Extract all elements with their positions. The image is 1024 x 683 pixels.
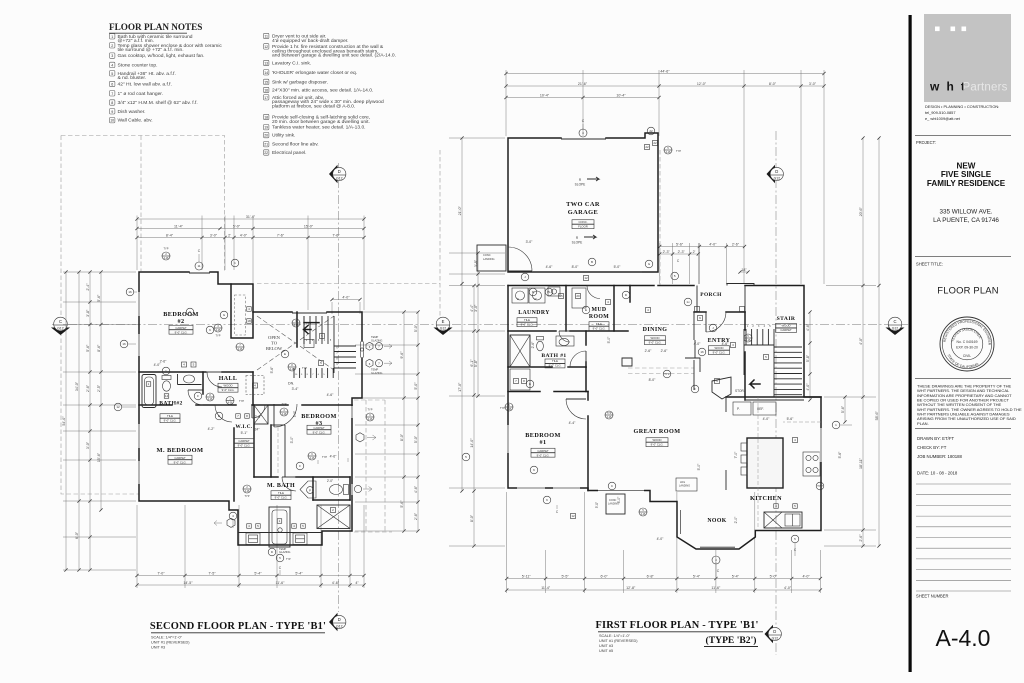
- garage entry door arc: [508, 247, 532, 271]
- svg-text:SLOPE: SLOPE: [572, 241, 583, 245]
- svg-text:SCALE: 1/4"=1'-0": SCALE: 1/4"=1'-0": [599, 634, 631, 638]
- right plan left dim chain 1: [461, 138, 463, 491]
- svg-text:w h t: w h t: [929, 80, 967, 94]
- svg-text:& nd. bluster.: & nd. bluster.: [118, 75, 147, 81]
- svg-text:Partners: Partners: [963, 82, 1008, 94]
- note 17: [264, 95, 384, 110]
- hall/stair wall: [252, 372, 254, 405]
- legal paragraph: [917, 384, 1022, 426]
- svg-text:A-4.0: A-4.0: [936, 625, 991, 651]
- svg-text:1" ø rod coat hanger.: 1" ø rod coat hanger.: [118, 91, 164, 97]
- svg-text:FAMILY RESIDENCE: FAMILY RESIDENCE: [927, 179, 1006, 188]
- svg-text:D: D: [338, 617, 341, 622]
- centerline symbol below right plan: [712, 556, 720, 564]
- garage walls: [508, 133, 658, 272]
- svg-text:4'-0": 4'-0": [154, 363, 162, 367]
- note 18: [264, 114, 371, 125]
- svg-text:4'-0": 4'-0": [240, 233, 248, 237]
- svg-text:24"X30" min. attic access, see: 24"X30" min. attic access, see detail. 1…: [272, 88, 373, 94]
- svg-text:8'-0": 8'-0": [769, 82, 777, 86]
- svg-text:10: 10: [110, 119, 114, 123]
- svg-text:TYP: TYP: [302, 366, 307, 370]
- roof outline dashed right of left plan: [365, 400, 367, 532]
- stair bottom run risers: [293, 368, 295, 378]
- garage door opening ticks bottom: [520, 271, 642, 273]
- stair 5 box: [764, 355, 769, 360]
- note 8: [110, 100, 198, 106]
- entry coat closet jog: [688, 358, 700, 372]
- svg-text:G12: G12: [336, 624, 343, 628]
- left plan far left dim chain (54-0): [65, 272, 67, 570]
- svg-text:TWO CAR: TWO CAR: [566, 201, 600, 208]
- first floor roof dashed above open-below: [257, 283, 440, 285]
- svg-text:5'-4": 5'-4": [732, 574, 740, 578]
- note 21: [264, 142, 319, 148]
- svg-text:9: 9: [111, 110, 113, 114]
- svg-text:BEDROOM: BEDROOM: [301, 413, 336, 420]
- svg-text:3'-0": 3'-0": [290, 436, 294, 444]
- svg-text:FIRST FLOOR PLAN - TYPE 'B1': FIRST FLOOR PLAN - TYPE 'B1': [595, 620, 758, 631]
- entry/stair divider: [744, 312, 746, 330]
- svg-text:ARISING FROM THE UNAUTHORIZED: ARISING FROM THE UNAUTHORIZED USE OF SAI…: [917, 416, 1016, 421]
- svg-text:16: 16: [264, 89, 268, 93]
- porch posts: [695, 307, 700, 312]
- note 16: [264, 87, 374, 93]
- svg-text:6: 6: [111, 83, 113, 87]
- svg-text:58'-6": 58'-6": [875, 410, 879, 420]
- svg-text:8'-0": 8'-0": [572, 265, 580, 269]
- kitchen top wall: [726, 396, 821, 398]
- bedroom1 windows: [507, 425, 510, 453]
- svg-text:GLAZING: GLAZING: [279, 550, 290, 554]
- svg-text:5'-6": 5'-6": [400, 500, 404, 508]
- m.bedroom windows on left wall: [138, 424, 141, 448]
- svg-text:10'-4": 10'-4": [616, 93, 626, 97]
- svg-text:2'-6": 2'-6": [661, 349, 669, 353]
- left plan bottom dim row 2: [137, 584, 364, 586]
- top dim extension lines: [136, 216, 138, 271]
- svg-text:7: 7: [111, 92, 113, 96]
- left plan top dimension chain row 1 (31-4): [137, 218, 364, 220]
- svg-text:5'-0": 5'-0": [607, 336, 611, 344]
- svg-text:9'-0" CLG.: 9'-0" CLG.: [164, 419, 177, 423]
- right plan right dim extensions: [824, 396, 876, 398]
- svg-text:TEMP: TEMP: [371, 368, 378, 372]
- svg-text:WOOD: WOOD: [714, 346, 723, 350]
- bedroom3 left wall: [270, 425, 272, 477]
- svg-text:5'-1": 5'-1": [241, 431, 249, 435]
- svg-text:FIVE SINGLE: FIVE SINGLE: [941, 170, 992, 179]
- svg-text:9'-0" CLG.: 9'-0" CLG.: [521, 323, 534, 327]
- svg-text:4-16: 4-16: [607, 416, 612, 419]
- svg-text:4-16: 4-16: [294, 324, 299, 327]
- svg-text:DN.: DN.: [288, 382, 294, 386]
- m.bath window right wall: [351, 484, 354, 495]
- svg-text:4'-0": 4'-0": [342, 295, 350, 299]
- section marker D bottom (right plan): [765, 625, 774, 644]
- note 22: [264, 150, 307, 156]
- svg-text:2'-0": 2'-0": [734, 516, 738, 524]
- svg-text:4'-0": 4'-0": [709, 242, 717, 246]
- svg-text:PL: PL: [547, 290, 551, 294]
- svg-text:5'-5": 5'-5": [562, 574, 570, 578]
- kitchen counter dashed line: [757, 397, 759, 528]
- note 13: [264, 60, 312, 66]
- note 20: [264, 132, 296, 138]
- bath1 right wall: [585, 331, 587, 345]
- second floor roof outline (dashed): [61, 136, 225, 495]
- svg-text:WOOD: WOOD: [650, 336, 659, 340]
- svg-text:6'-0": 6'-0": [601, 574, 609, 578]
- svg-text:3'-0": 3'-0": [210, 233, 218, 237]
- svg-text:SHEET NUMBER: SHEET NUMBER: [916, 594, 948, 599]
- svg-text:2'-6": 2'-6": [255, 415, 263, 419]
- svg-text:9'-0" CLG.: 9'-0" CLG.: [593, 327, 606, 331]
- svg-text:9'-0" CLG.: 9'-0" CLG.: [649, 341, 662, 345]
- svg-text:20'-6": 20'-6": [859, 206, 863, 216]
- svg-text:WOOD: WOOD: [223, 383, 232, 387]
- svg-text:14: 14: [165, 394, 169, 398]
- svg-text:E: E: [585, 308, 587, 312]
- svg-text:tel_909-510-0857: tel_909-510-0857: [925, 110, 956, 115]
- right plan top dim extensions: [505, 70, 507, 136]
- svg-text:TILE: TILE: [552, 359, 558, 363]
- svg-text:TYP: TYP: [664, 372, 670, 376]
- svg-text:3'-8": 3'-8": [86, 309, 90, 317]
- svg-text:5'-4": 5'-4": [254, 571, 262, 575]
- svg-text:G12: G12: [440, 327, 447, 331]
- svg-text:TYP: TYP: [500, 406, 505, 410]
- svg-text:STOR.: STOR.: [735, 389, 745, 393]
- svg-text:TYP: TYP: [239, 399, 244, 403]
- note 2: [110, 43, 223, 54]
- svg-text:CHECK BY: FT: CHECK BY: FT: [917, 445, 947, 450]
- stair direction arrow first floor: [750, 380, 760, 388]
- open-below window in top wall: [292, 312, 327, 314]
- circled 11 above wall: [195, 262, 203, 270]
- right plan left dim chain 2: [473, 286, 475, 547]
- m.bath shower with X: [317, 505, 350, 529]
- right plan right dim chain 1: [862, 138, 864, 546]
- svg-text:24": 24": [255, 428, 260, 432]
- stair right run treads: [774, 346, 802, 348]
- right plan keynote symbols: [647, 127, 655, 135]
- svg-text:CARPET: CARPET: [313, 426, 325, 430]
- left plan right dim chain: [403, 312, 405, 531]
- svg-text:4'-6": 4'-6": [806, 323, 810, 331]
- kitchen window right wall: [820, 428, 823, 462]
- svg-text:TYP: TYP: [676, 149, 681, 153]
- svg-text:44'-6": 44'-6": [660, 69, 670, 73]
- svg-text:FLOOR PLAN: FLOOR PLAN: [937, 285, 998, 296]
- svg-text:TYP: TYP: [244, 494, 249, 498]
- svg-text:4'-6": 4'-6": [330, 455, 338, 459]
- svg-text:34'-0": 34'-0": [75, 381, 79, 391]
- svg-text:W.I.C.: W.I.C.: [235, 424, 253, 430]
- svg-text:BELOW: BELOW: [266, 346, 283, 351]
- svg-text:22: 22: [653, 141, 657, 145]
- svg-text:16: 16: [128, 290, 132, 294]
- m.bath tub: [269, 507, 290, 547]
- svg-text:9'-6": 9'-6": [400, 351, 404, 359]
- svg-text:DINING: DINING: [643, 327, 668, 333]
- svg-text:platform at firebox, see detai: platform at firebox, see detail @ A-8.0.: [272, 104, 355, 110]
- svg-text:4'-6": 4'-6": [414, 485, 418, 493]
- svg-text:4'-0": 4'-0": [802, 574, 810, 578]
- svg-text:5'-0": 5'-0": [595, 502, 599, 508]
- dining left colonnade: [629, 286, 631, 303]
- right dim extension lines left plan: [355, 311, 418, 313]
- svg-text:15'-0": 15'-0": [304, 224, 314, 228]
- section marker D top (right plan): [767, 165, 776, 184]
- svg-text:Wall Cable. abv.: Wall Cable. abv.: [118, 118, 153, 124]
- right plan top dim row 3: [506, 97, 659, 99]
- svg-text:5'-6": 5'-6": [838, 451, 842, 459]
- wic door arc: [252, 405, 265, 418]
- svg-text:F: F: [694, 387, 696, 391]
- m.bedroom right wall: [233, 428, 235, 501]
- svg-text:7'-6": 7'-6": [332, 233, 340, 237]
- separator: [915, 428, 1011, 430]
- svg-text:TILE: TILE: [167, 414, 173, 418]
- svg-text:#2: #2: [178, 318, 185, 325]
- svg-text:5'-0": 5'-0": [414, 382, 418, 390]
- engineer stamp: [940, 317, 994, 371]
- svg-text:Lavatory C.I. sink.: Lavatory C.I. sink.: [272, 61, 311, 67]
- svg-text:22: 22: [645, 145, 649, 149]
- centerline symbol below left plan: [276, 554, 284, 562]
- 4-0 dim top right of stairs: [332, 299, 360, 301]
- svg-text:4'-6": 4'-6": [327, 393, 335, 397]
- dims above porch area: [660, 246, 745, 248]
- svg-text:4-16: 4-16: [245, 490, 250, 493]
- elevation marker E right of left plan: [434, 328, 453, 336]
- svg-text:3'-0": 3'-0": [86, 441, 90, 449]
- svg-text:6'-0": 6'-0": [75, 531, 79, 539]
- svg-text:11'-4": 11'-4": [541, 586, 551, 590]
- stair upper run risers second floor: [303, 316, 305, 344]
- svg-text:4'-0": 4'-0": [784, 586, 792, 590]
- stair direction arrow second floor: [304, 326, 312, 334]
- right plan bottom dim extensions: [506, 550, 508, 593]
- svg-text:5'-0": 5'-0": [414, 324, 418, 332]
- stair handrail bold line: [304, 322, 319, 324]
- svg-text:7'-0": 7'-0": [157, 571, 165, 575]
- svg-text:1: 1: [111, 35, 113, 39]
- svg-text:10'-4": 10'-4": [540, 93, 550, 97]
- svg-text:2'-0": 2'-0": [327, 479, 333, 483]
- svg-text:2'-6": 2'-6": [414, 512, 418, 520]
- svg-text:SCALE: 1/4"=1'-0": SCALE: 1/4"=1'-0": [151, 636, 183, 640]
- note 6: [110, 81, 172, 87]
- bedroom3 door arc: [274, 404, 297, 427]
- svg-text:8'-6": 8'-6": [97, 344, 101, 352]
- svg-text:TYP: TYP: [215, 334, 220, 338]
- left plan left dim chain 4 (inner): [100, 272, 102, 510]
- svg-text:5'-6": 5'-6": [841, 405, 845, 413]
- svg-text:4'-4": 4'-4": [569, 421, 577, 425]
- svg-text:4-16: 4-16: [746, 339, 751, 342]
- svg-text:5'-0": 5'-0": [770, 574, 778, 578]
- front door arc entry: [706, 312, 726, 332]
- svg-text:GLAZING: GLAZING: [371, 339, 382, 343]
- svg-text:31'-4": 31'-4": [246, 215, 256, 219]
- bath2 right wall: [202, 372, 204, 394]
- svg-text:5'-6": 5'-6": [97, 294, 101, 302]
- svg-text:21'-0": 21'-0": [458, 205, 462, 215]
- svg-text:9'-0" CLG.: 9'-0" CLG.: [238, 444, 251, 448]
- bedroom3 closet strip: [284, 425, 286, 477]
- svg-text:2': 2': [228, 233, 231, 237]
- svg-text:12'-8": 12'-8": [626, 586, 636, 590]
- svg-text:CARPET: CARPET: [780, 328, 792, 332]
- svg-text:8'-4": 8'-4": [166, 233, 174, 237]
- bath1 sink oval: [559, 338, 569, 345]
- svg-text:BEDROOM: BEDROOM: [525, 432, 560, 439]
- svg-text:20 min. door between garage &: 20 min. door between garage & dwelling u…: [272, 119, 370, 125]
- svg-text:4-16: 4-16: [666, 151, 671, 154]
- svg-text:TEMP: TEMP: [371, 335, 378, 339]
- separator: [915, 378, 1011, 380]
- svg-text:PROJECT:: PROJECT:: [916, 140, 936, 145]
- svg-text:DESIGN • PLANNING • CONSTRUCTI: DESIGN • PLANNING • CONSTRUCTION:: [925, 104, 999, 109]
- svg-text:STAIR: STAIR: [777, 316, 796, 322]
- svg-text:2'-6": 2'-6": [531, 341, 535, 349]
- svg-text:M. BATH: M. BATH: [267, 483, 295, 489]
- svg-text:18: 18: [247, 319, 251, 323]
- svg-text:MUD: MUD: [591, 307, 606, 313]
- svg-text:(TYPE 'B2'): (TYPE 'B2'): [706, 635, 757, 646]
- svg-text:Sink w/ garbage disposer.: Sink w/ garbage disposer.: [272, 79, 328, 85]
- svg-text:GREAT ROOM: GREAT ROOM: [634, 428, 681, 435]
- left plan left dim chain 3: [89, 272, 91, 570]
- svg-text:14'-0": 14'-0": [470, 438, 474, 448]
- svg-text:GLAZING: GLAZING: [371, 371, 382, 375]
- left plan left dim chain 2: [78, 272, 80, 570]
- svg-text:G12: G12: [57, 327, 64, 331]
- svg-text:4-16: 4-16: [164, 257, 169, 260]
- conc landing below great room: [606, 494, 625, 514]
- linen closet strip: [510, 369, 530, 390]
- svg-text:Tankless water heater, see det: Tankless water heater, see detail. 1/A-1…: [272, 125, 366, 131]
- left plan top dimension chain row 2: [137, 228, 364, 230]
- svg-text:5'-6": 5'-6": [86, 344, 90, 352]
- left plan right dim chain 2: [417, 312, 419, 531]
- svg-text:9'-0" CLG.: 9'-0" CLG.: [549, 364, 562, 368]
- svg-text:4-16: 4-16: [641, 513, 646, 516]
- svg-text:TYP: TYP: [607, 412, 612, 415]
- svg-text:BATH#2: BATH#2: [159, 401, 182, 407]
- svg-text:4'-0": 4'-0": [657, 537, 665, 541]
- stair right run treads second floor: [334, 345, 356, 347]
- garage top window: [561, 138, 606, 140]
- svg-text:EXP. 09-30-20: EXP. 09-30-20: [956, 346, 978, 350]
- svg-text:FLOOR PLAN NOTES: FLOOR PLAN NOTES: [109, 22, 202, 32]
- svg-text:OPEN: OPEN: [268, 335, 281, 340]
- stair mid rail: [744, 344, 774, 346]
- mud right wall: [613, 286, 615, 332]
- bedroom2 window in top wall: [189, 272, 210, 274]
- svg-text:3/4" x12" H.M.M. shelf @ 62" a: 3/4" x12" H.M.M. shelf @ 62" abv. f.f.: [118, 100, 198, 106]
- svg-text:Utility sink.: Utility sink.: [272, 133, 295, 139]
- svg-text:WOOD: WOOD: [781, 323, 790, 327]
- svg-text:C: C: [59, 319, 62, 324]
- svg-text:4-16: 4-16: [238, 348, 243, 351]
- bedroom1 door arc: [566, 399, 586, 419]
- svg-text:D: D: [775, 169, 778, 174]
- right plan bottom dim row 1: [507, 578, 821, 580]
- svg-text:9'-0" CLG.: 9'-0" CLG.: [275, 496, 288, 500]
- svg-text:P.: P.: [737, 407, 740, 411]
- svg-text:#1: #1: [540, 439, 547, 446]
- right plan left dim chain 3: [477, 253, 479, 396]
- stair bottom landing wall: [745, 399, 804, 401]
- note 10: [110, 118, 153, 124]
- svg-text:12: 12: [571, 514, 575, 518]
- svg-text:E: E: [442, 319, 445, 324]
- svg-text:12: 12: [584, 276, 588, 280]
- svg-text:15: 15: [264, 80, 268, 84]
- bedroom2 windows on left wall: [138, 292, 141, 316]
- svg-text:15: 15: [559, 294, 563, 298]
- svg-text:2'-6": 2'-6": [86, 384, 90, 392]
- bath2 door arc: [188, 390, 203, 405]
- svg-text:2'-6": 2'-6": [732, 242, 740, 246]
- svg-text:3'-4": 3'-4": [292, 387, 300, 391]
- svg-text:CIVIL: CIVIL: [963, 354, 971, 358]
- svg-text:12: 12: [116, 405, 120, 409]
- stair landing rect: [304, 340, 314, 348]
- svg-text:HALL: HALL: [219, 376, 238, 382]
- kitchen pantry and fridge boxes: [733, 402, 751, 415]
- svg-text:4-38: 4-38: [228, 401, 233, 404]
- svg-text:4-16: 4-16: [507, 408, 512, 411]
- svg-text:BEDROOM: BEDROOM: [163, 311, 198, 318]
- hex symbol left of vanity: [227, 518, 235, 527]
- laundry/mud divider: [565, 286, 567, 332]
- bedroom3 window right wall: [351, 406, 354, 418]
- svg-text:DATE: 10 - 08 - 2018: DATE: 10 - 08 - 2018: [917, 471, 958, 476]
- svg-text:9'-0" CLG.: 9'-0" CLG.: [222, 388, 235, 392]
- svg-text:SECOND FLOOR PLAN - TYPE 'B1': SECOND FLOOR PLAN - TYPE 'B1': [150, 621, 326, 632]
- svg-text:F: F: [299, 464, 301, 468]
- svg-text:7'-6": 7'-6": [277, 233, 285, 237]
- svg-text:E: E: [284, 352, 286, 356]
- svg-text:TILE: TILE: [278, 491, 284, 495]
- first floor outer walls: [508, 285, 654, 287]
- svg-text:4-18: 4-18: [282, 413, 287, 416]
- great room south windows: [598, 489, 644, 492]
- svg-text:5'-4": 5'-4": [295, 571, 303, 575]
- m.bath shower door pentagon: [300, 481, 316, 498]
- svg-text:CARPET: CARPET: [238, 439, 250, 443]
- svg-text:4'-0": 4'-0": [763, 417, 771, 421]
- laundry sink: [548, 287, 560, 296]
- bottom dim extension lines: [136, 505, 138, 588]
- svg-text:8'-0": 8'-0": [400, 433, 404, 441]
- svg-text:17: 17: [264, 96, 268, 100]
- svg-text:D: D: [338, 169, 341, 174]
- bath2 tub: [142, 375, 156, 408]
- svg-text:D: D: [517, 297, 519, 301]
- wht Partners logo gray box: [924, 14, 1011, 102]
- typ symbol mbath: [243, 485, 251, 493]
- svg-text:9'-0" CLG.: 9'-0" CLG.: [537, 454, 550, 458]
- svg-text:5'-4": 5'-4": [693, 574, 701, 578]
- svg-text:No. C 040169: No. C 040169: [957, 340, 978, 344]
- svg-text:2'-6": 2'-6": [859, 534, 863, 542]
- m.bath toilet: [330, 485, 343, 495]
